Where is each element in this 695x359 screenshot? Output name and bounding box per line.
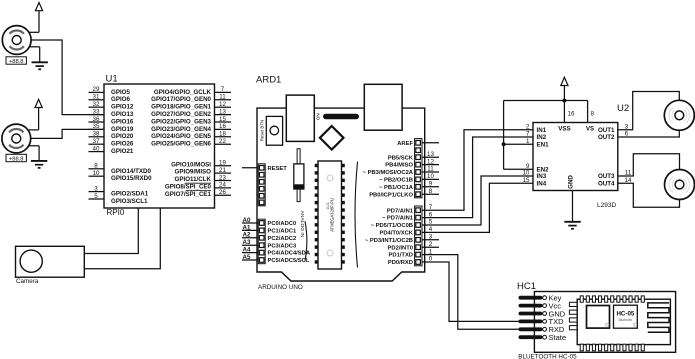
U1 right pin stubs with numbers	[215, 86, 232, 196]
svg-text:5: 5	[94, 193, 98, 200]
motor M3 (top right)	[664, 100, 694, 130]
svg-text:IN1: IN1	[537, 127, 547, 134]
svg-text:EN1: EN1	[537, 141, 550, 148]
wire OUT1 to motor M3 top	[618, 92, 680, 130]
ARD1 right header top	[415, 139, 422, 198]
svg-text:23: 23	[219, 174, 226, 181]
svg-text:GPIO27/GPIO_GEN2: GPIO27/GPIO_GEN2	[151, 111, 211, 118]
wire ARD1 pin1 TXD to HC1 RXD	[422, 255, 520, 330]
svg-text:18: 18	[219, 131, 226, 138]
svg-text:Reset BTN: Reset BTN	[259, 120, 264, 141]
ARD1 left power header	[258, 164, 265, 206]
diamond logo	[320, 126, 344, 150]
svg-text:IN3: IN3	[537, 173, 547, 180]
svg-text:IN4: IN4	[537, 180, 547, 187]
digital pins brace	[355, 162, 358, 268]
ON label and power LED	[315, 113, 359, 120]
svg-text:~ PD5/T1/OC0B: ~ PD5/T1/OC0B	[371, 223, 413, 229]
svg-text:GPIO10/MOSI: GPIO10/MOSI	[171, 161, 211, 168]
svg-text:13: 13	[427, 151, 434, 158]
svg-text:GPIO21: GPIO21	[111, 148, 134, 155]
svg-text:GPIO25/GPIO_GEN6: GPIO25/GPIO_GEN6	[151, 141, 211, 148]
svg-text:GPIO26: GPIO26	[111, 141, 134, 148]
ARD1 pins AREF and 13-8	[363, 141, 439, 198]
svg-text:ATMEGA328P-PU: ATMEGA328P-PU	[330, 198, 335, 232]
svg-text:PD0/RXD: PD0/RXD	[388, 260, 413, 266]
svg-text:~ PB2/OC1B: ~ PB2/OC1B	[379, 178, 413, 184]
svg-text:GPIO12: GPIO12	[111, 104, 134, 111]
motor M1 value display +88.8	[6, 57, 26, 65]
wire ARD1 pin6 to L293D IN2	[422, 137, 533, 218]
svg-text:PC2/ADC2: PC2/ADC2	[268, 236, 297, 242]
wire U1 to camera pin A	[84, 208, 138, 254]
svg-text:L293D: L293D	[597, 202, 616, 209]
svg-text:GPIO17/GPIO_GEN0: GPIO17/GPIO_GEN0	[151, 96, 211, 103]
L293D pin names	[537, 126, 616, 189]
svg-text:PC0/ADC0: PC0/ADC0	[268, 221, 297, 227]
svg-text:GPIO4/GPIO_GCLK: GPIO4/GPIO_GCLK	[154, 89, 212, 96]
svg-text:GPIO14/TXD0: GPIO14/TXD0	[111, 168, 151, 175]
wire power to EN1 EN2	[504, 101, 533, 170]
svg-text:~ PB1/OC1A: ~ PB1/OC1A	[379, 185, 414, 191]
svg-text:AREF: AREF	[397, 141, 413, 147]
svg-text:A4: A4	[243, 247, 251, 254]
svg-text:24: 24	[219, 182, 226, 189]
svg-text:8: 8	[591, 111, 595, 118]
motor M2 value display +88.8	[6, 154, 26, 162]
U1 right pin names	[151, 89, 211, 198]
svg-text:GPIO15/RXD0: GPIO15/RXD0	[111, 175, 152, 182]
svg-text:36: 36	[93, 116, 100, 123]
svg-text:38: 38	[93, 131, 100, 138]
ground for M1	[29, 47, 48, 70]
U1 left pin names	[111, 89, 152, 205]
svg-text:PC1/ADC1: PC1/ADC1	[268, 229, 297, 235]
svg-text:1121: 1121	[326, 202, 330, 210]
svg-text:9: 9	[429, 181, 433, 188]
svg-text:RPI0: RPI0	[107, 208, 125, 217]
svg-text:+88.8: +88.8	[9, 157, 24, 163]
svg-text:19: 19	[219, 160, 226, 167]
svg-text:12: 12	[219, 101, 226, 108]
svg-text:GPIO18/GPIO_GEN1: GPIO18/GPIO_GEN1	[151, 104, 211, 111]
svg-text:OUT3: OUT3	[598, 173, 615, 180]
reset button	[259, 116, 282, 145]
wire M2 to U1 GPIO19 pin 35	[30, 129, 104, 138]
svg-text:~ PD7/AIN1: ~ PD7/AIN1	[382, 216, 414, 222]
svg-text:ARD1: ARD1	[256, 75, 281, 86]
svg-text:ANALOG IN: ANALOG IN	[299, 211, 305, 238]
svg-text:PB5/SCK: PB5/SCK	[388, 155, 414, 161]
camera module	[16, 246, 85, 277]
svg-text:GPIO22/GPIO_GEN3: GPIO22/GPIO_GEN3	[151, 118, 211, 125]
svg-text:PC5/ADC5/SCL: PC5/ADC5/SCL	[268, 258, 310, 264]
Arduino ARD1 board outline	[257, 108, 425, 281]
svg-text:VSS: VSS	[558, 126, 570, 133]
ARD1 pins 7-0 labels	[365, 204, 439, 266]
svg-text:GPIO24/GPIO_GEN5: GPIO24/GPIO_GEN5	[151, 133, 211, 140]
svg-text:29: 29	[93, 86, 100, 93]
svg-text:RESET: RESET	[268, 166, 288, 172]
HC-05 PCB outline	[577, 299, 670, 344]
svg-text:15: 15	[523, 177, 530, 184]
svg-text:35: 35	[93, 123, 100, 130]
IC U1 Raspberry Pi body	[104, 84, 215, 208]
svg-text:PB4/MISO: PB4/MISO	[385, 163, 413, 169]
svg-text:PB0/ICP1/CLKO: PB0/ICP1/CLKO	[369, 192, 413, 198]
svg-text:PD2/INT0: PD2/INT0	[388, 245, 413, 251]
svg-text:HC-05: HC-05	[616, 310, 634, 317]
svg-text:IN2: IN2	[537, 134, 547, 141]
wire U1 to camera pin B	[84, 208, 160, 269]
svg-text:BLUETOOTH HC-05: BLUETOOTH HC-05	[518, 354, 577, 359]
svg-text:~ PB3/MOSI/OC2A: ~ PB3/MOSI/OC2A	[363, 170, 414, 176]
svg-text:PD4/T0/XCK: PD4/T0/XCK	[379, 231, 413, 237]
svg-text:31: 31	[93, 94, 100, 101]
svg-text:U2: U2	[617, 103, 629, 114]
power rail wire to VSS VS	[504, 101, 588, 123]
ARD1 analog pins A0-A5	[242, 217, 311, 264]
svg-text:GPIO9/MISO: GPIO9/MISO	[175, 169, 212, 176]
svg-text:GPIO11/CLK: GPIO11/CLK	[175, 176, 212, 183]
svg-text:11: 11	[427, 166, 434, 173]
wire OUT2 to motor M3 bottom	[618, 130, 680, 137]
svg-text:21: 21	[219, 167, 226, 174]
ground for M2	[29, 146, 47, 168]
wire ARD1 pin5 to L293D IN3	[422, 176, 533, 225]
svg-text:GPIO2/SDA1: GPIO2/SDA1	[111, 191, 149, 198]
svg-text:A0: A0	[243, 217, 251, 224]
svg-text:PC3/ADC3: PC3/ADC3	[268, 243, 297, 249]
svg-text:GND: GND	[568, 175, 575, 189]
USB connector	[286, 95, 314, 141]
svg-text:OUT4: OUT4	[598, 180, 615, 187]
svg-text:37: 37	[93, 138, 100, 145]
HC-05 label box	[614, 305, 638, 328]
svg-text:8: 8	[429, 188, 433, 195]
svg-text:GPIO3/SCL1: GPIO3/SCL1	[111, 198, 148, 205]
svg-text:PC4/ADC4/SDA: PC4/ADC4/SDA	[268, 251, 311, 257]
analog pins brace	[305, 221, 307, 261]
svg-text:OUT1: OUT1	[598, 127, 615, 134]
svg-text:GPIO16: GPIO16	[111, 118, 134, 125]
HC-05 chip square	[587, 306, 610, 329]
svg-text:OUT2: OUT2	[598, 134, 615, 141]
svg-text:GPIO23/GPIO_GEN4: GPIO23/GPIO_GEN4	[151, 126, 211, 133]
svg-text:~ PD3/INT1/OC2B: ~ PD3/INT1/OC2B	[365, 238, 413, 244]
svg-text:A5: A5	[243, 254, 251, 261]
svg-text:3: 3	[94, 185, 98, 192]
HC-05 antenna meander	[648, 303, 669, 332]
svg-text:PD7/AIN1: PD7/AIN1	[387, 208, 414, 214]
power jack	[364, 84, 402, 130]
wire ARD1 pin0 RXD to HC1 TXD	[422, 262, 520, 321]
svg-text:HC1: HC1	[517, 281, 536, 292]
svg-text:10: 10	[523, 170, 530, 177]
svg-text:16: 16	[568, 111, 575, 118]
L293D left pin numbers	[523, 123, 530, 184]
svg-text:22: 22	[219, 138, 226, 145]
svg-text:GPIO5: GPIO5	[111, 89, 130, 96]
svg-text:13: 13	[219, 108, 226, 115]
svg-text:1: 1	[526, 138, 530, 145]
svg-text:ARDUINO UNO: ARDUINO UNO	[258, 284, 303, 291]
svg-text:8: 8	[94, 163, 98, 170]
junction dot at VSS	[562, 99, 566, 103]
svg-text:16: 16	[219, 123, 226, 130]
HC1 module body	[534, 292, 675, 353]
IC ATMEGA328P	[315, 161, 345, 269]
IC L293D body	[533, 123, 618, 191]
U1 left pin stubs with numbers	[89, 86, 105, 200]
svg-text:2: 2	[526, 123, 530, 130]
svg-text:ON: ON	[315, 113, 320, 120]
wire ARD1 pin7 to L293D IN1	[422, 130, 533, 211]
svg-text:10: 10	[93, 170, 100, 177]
svg-text:GPIO6: GPIO6	[111, 96, 130, 103]
HC1 pins	[519, 296, 547, 339]
wire OUT4 to motor M4 bottom	[618, 183, 680, 207]
svg-text:A2: A2	[243, 232, 251, 239]
svg-text:15: 15	[219, 116, 226, 123]
motor M2 (lower left)	[2, 124, 31, 153]
svg-text:33: 33	[93, 108, 100, 115]
wire OUT3 to motor M4 top	[618, 154, 680, 176]
svg-text:+88.8: +88.8	[9, 59, 24, 65]
power arrow for M2	[29, 99, 43, 129]
svg-text:GPIO8/SPI_CE0: GPIO8/SPI_CE0	[165, 184, 212, 191]
svg-text:11: 11	[219, 94, 226, 101]
svg-text:40: 40	[93, 145, 100, 152]
svg-text:State: State	[549, 333, 567, 342]
motor M4 (bottom right)	[665, 170, 695, 200]
power arrow above L293D	[561, 77, 568, 100]
svg-text:PD1/TXD: PD1/TXD	[389, 253, 413, 259]
junction dot at EN1	[502, 142, 506, 146]
svg-text:32: 32	[93, 101, 100, 108]
svg-text:7: 7	[221, 86, 225, 93]
L293D ground	[564, 191, 580, 229]
power arrow for M1	[29, 3, 43, 33]
motor M1 (top left)	[2, 26, 31, 55]
crystal component	[294, 149, 304, 202]
wire ARD1 pin4 to L293D IN4	[422, 183, 533, 232]
svg-text:26: 26	[219, 189, 226, 196]
svg-text:U1: U1	[106, 74, 118, 85]
svg-text:Camera: Camera	[16, 278, 39, 285]
svg-text:12: 12	[427, 158, 434, 165]
svg-text:7: 7	[526, 131, 530, 138]
svg-text:A3: A3	[243, 239, 251, 246]
svg-text:Bluetooth: Bluetooth	[619, 318, 633, 322]
HC-05 castellation pads	[569, 296, 644, 351]
ARD1 RESET pin	[242, 166, 287, 172]
ARD1 right header bottom	[415, 206, 422, 266]
svg-text:GPIO7/SPI_CE1: GPIO7/SPI_CE1	[165, 191, 212, 198]
svg-text:GPIO20: GPIO20	[111, 133, 134, 140]
svg-text:VS: VS	[586, 126, 594, 133]
L293D right pin numbers	[625, 123, 632, 184]
svg-text:GPIO13: GPIO13	[111, 111, 134, 118]
svg-text:GPIO19: GPIO19	[111, 126, 134, 133]
HC1 pin labels	[549, 294, 567, 343]
svg-text:10: 10	[427, 173, 434, 180]
wire M1 to U1 GPIO13 pin 33	[31, 40, 104, 115]
svg-text:A1: A1	[243, 224, 251, 231]
